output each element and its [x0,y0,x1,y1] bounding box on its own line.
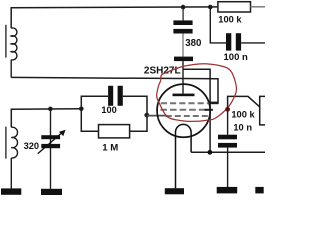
wire gray from R1 to right edge [251,6,266,8]
wire down-left branch to R 1M [81,109,98,132]
wire 100n right to edge [241,42,265,44]
grid g1 dashes row2 [160,109,208,111]
svg-text:100 k: 100 k [231,110,255,120]
wire bus2 from L2 to grid network [11,109,81,128]
inductor L2 [11,127,17,158]
wire C 10n down to ground B [227,148,229,189]
node dot bus2 varcap branch [48,107,53,112]
wire top bus L1 top to R1 [11,7,218,28]
wire varcap branch vertical [50,109,52,189]
wire node B down to C 10n [227,109,229,134]
wire from top bus down to C 380 [182,7,184,20]
capacitor C 100 plates [108,86,113,106]
grid g3 dashes row3 [166,115,209,117]
wire gray from C380 to top cap [182,34,184,57]
wire R 1M right to grid node [130,115,147,131]
core of L2 [5,127,7,159]
svg-text:100: 100 [101,105,116,115]
tube V1 envelope [157,84,210,137]
cathode bus to right edge [191,151,265,153]
resistor R 1M box [99,125,130,138]
node dot top bus at 100n branch [208,5,213,10]
inductor L1 [11,28,17,60]
ground B [217,187,238,194]
node dot grid [144,113,149,118]
capacitor 380 plates [173,20,192,25]
ground G2 [41,189,62,195]
grid g2 dashes row1 [161,102,209,104]
wire anode branch right and down to cathode bus [183,69,210,152]
wire top cap to anode [182,61,184,94]
wire L1 bottom long run to right, down at x=218 [11,77,218,103]
node dot red B [225,107,230,112]
variable capacitor arrow [38,132,63,153]
tube top cap bar [174,57,193,62]
svg-text:100 n: 100 n [224,52,248,63]
svg-text:10 n: 10 n [233,123,252,133]
resistor R1 100k box [218,2,251,12]
node dot cathode bus [208,150,213,155]
wire L1 bottom lead [10,60,12,78]
ground C [255,187,263,194]
cathode loop and leg to bus [176,124,192,188]
ground G1 [1,188,21,194]
anode bar [173,94,195,97]
svg-text:380: 380 [185,38,201,49]
resistor R2 100k box at edge [260,96,265,125]
wire g row2 right solid end [205,109,213,111]
wire from node B up and to R2 100k with diagonal [228,96,260,109]
svg-text:100 k: 100 k [218,15,242,25]
ground A [165,188,184,194]
wire 100n branch down from bus [210,7,226,43]
node dot top bus at 380 branch [181,5,186,10]
wire L2 bottom lead [10,158,12,189]
variable capacitor C 320 plates [41,135,60,139]
wire C100 right to grid node [123,96,147,115]
capacitor C 100n plates [226,33,231,50]
red annotation ellipse [157,64,237,122]
svg-text:1 M: 1 M [102,143,118,154]
wire grid lead into tube [147,115,166,117]
wire up-left branch to C100 [81,96,108,109]
core of L1 [5,25,7,58]
wire foot joining verticals [209,102,219,105]
node dot bus2 RC branch [79,107,84,112]
capacitor C 10n plates [218,135,237,140]
svg-text:320: 320 [24,141,40,151]
